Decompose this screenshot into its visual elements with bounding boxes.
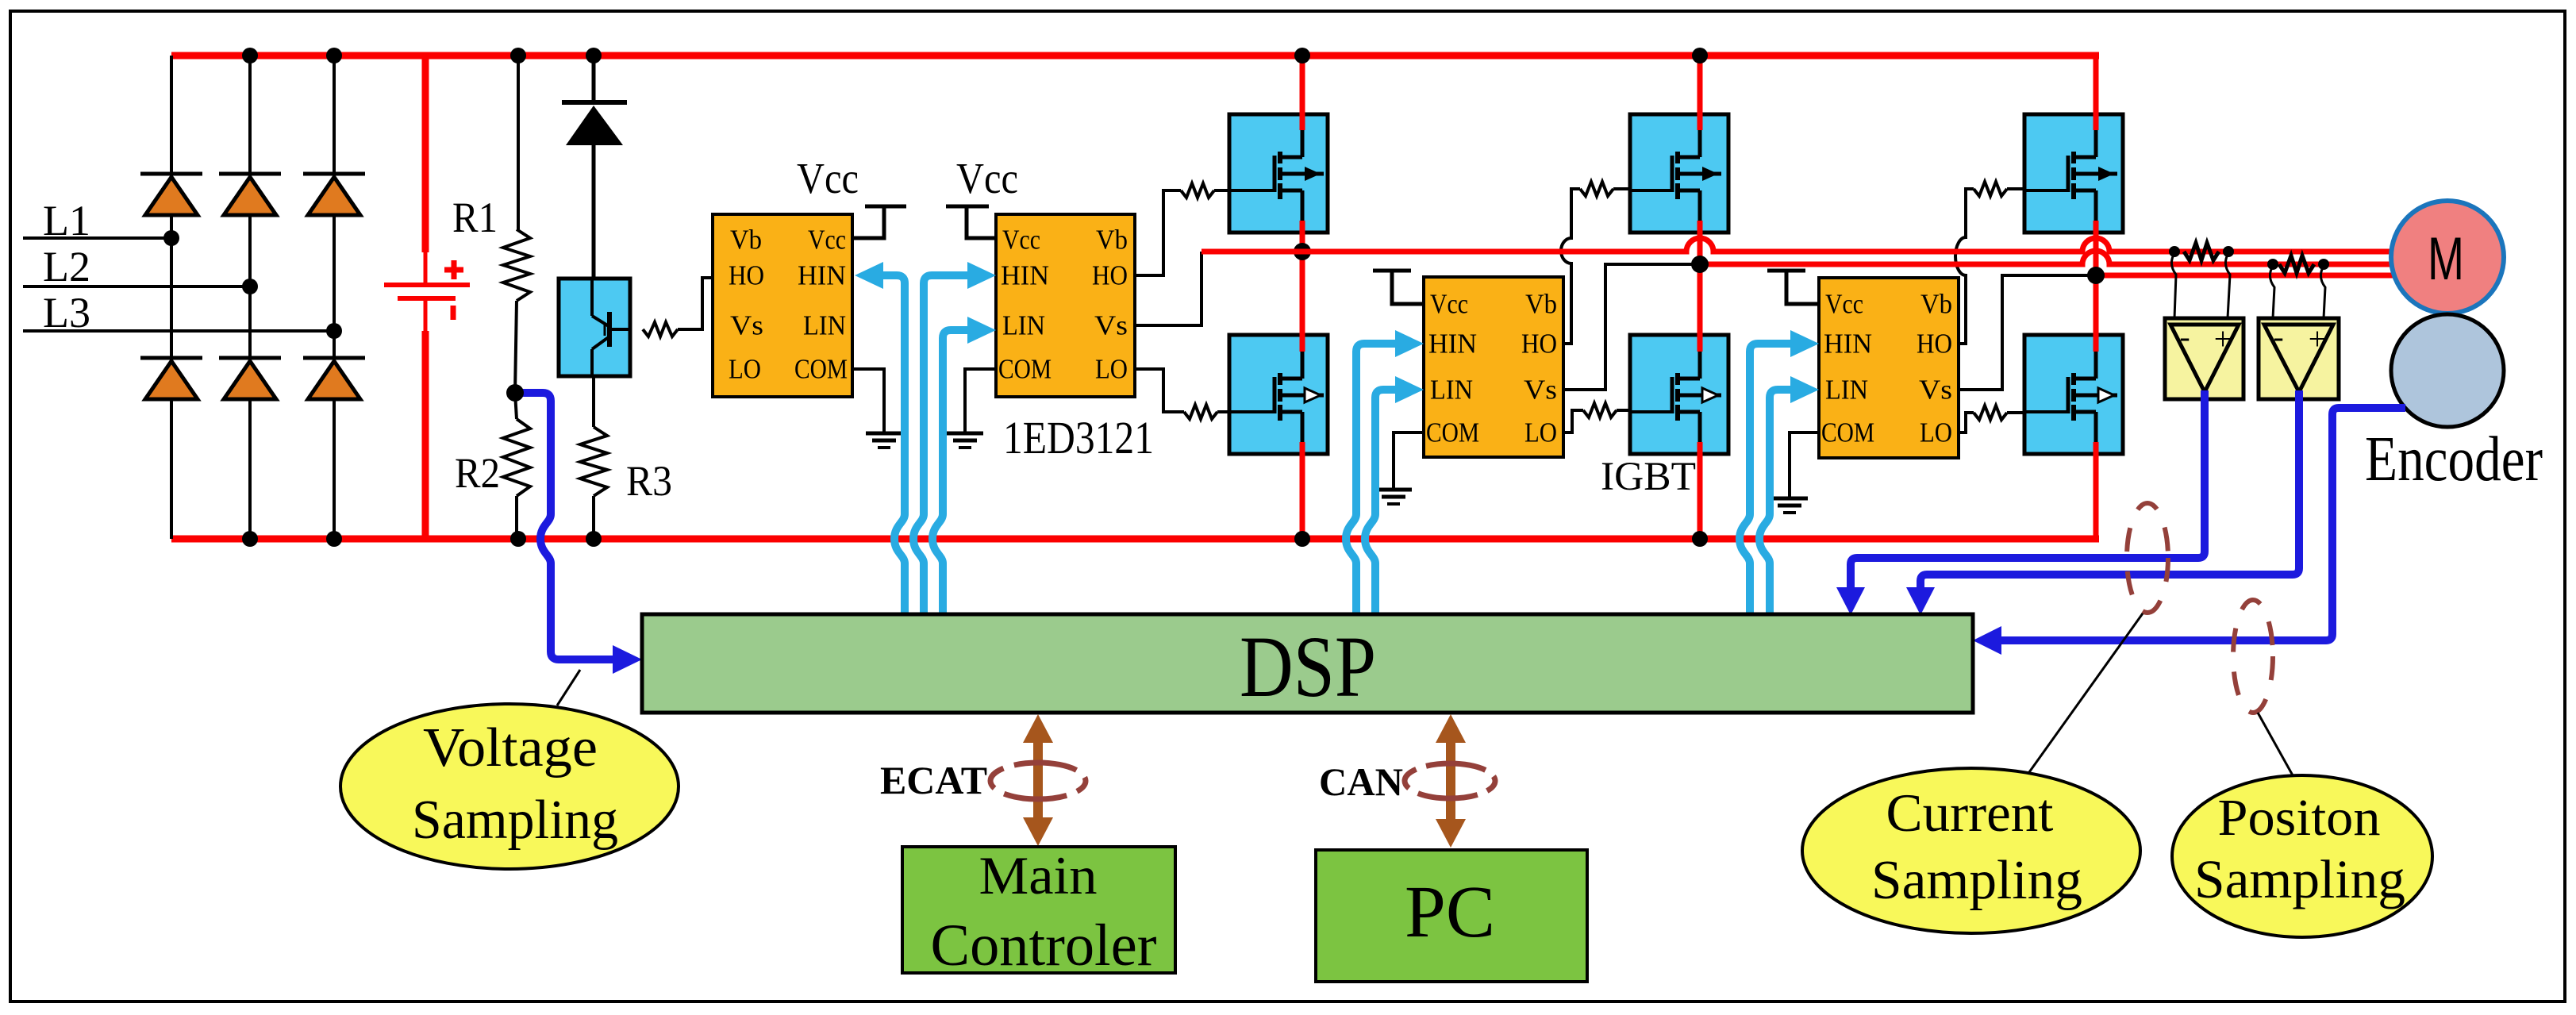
node: shunt1 left xyxy=(2169,246,2180,257)
resistor Rg31 (leg3 top gate) xyxy=(1974,182,2007,196)
transistor Q5 (leg2 bottom IGBT) xyxy=(1628,335,1728,454)
svg-text:Vb: Vb xyxy=(730,225,762,256)
diode D1 (bootstrap, black) xyxy=(562,56,627,279)
node: shunt2 right xyxy=(2318,259,2329,270)
svg-text:L2: L2 xyxy=(43,243,90,290)
callout: Current Sampling xyxy=(1802,768,2140,933)
ground of U4 COM xyxy=(1771,433,1819,513)
arrowhead: voltage sampling into DSP xyxy=(613,645,642,674)
diode D12 (upper, phase 2) xyxy=(219,174,281,215)
arrowhead: current1 into DSP xyxy=(1836,587,1865,615)
svg-text:Sampling: Sampling xyxy=(412,790,618,851)
svg-text:COM: COM xyxy=(1426,417,1479,448)
wire: phase 2 (red, hop at leg3) xyxy=(1700,251,2397,264)
svg-text:LO: LO xyxy=(1524,417,1557,448)
svg-text:Vcc: Vcc xyxy=(1825,289,1863,320)
resistor Rg21 (leg2 top gate) xyxy=(1580,182,1613,196)
diode D11 (upper, phase 1) xyxy=(140,174,202,215)
op-amp / gate driver U2 (right 1ED3121) xyxy=(996,214,1135,397)
svg-text:Vb: Vb xyxy=(1920,289,1952,320)
svg-text:Vs: Vs xyxy=(1094,310,1128,341)
svg-text:HO: HO xyxy=(729,260,764,291)
arrowhead: into U2 LIN xyxy=(967,317,996,344)
wire: rectifier column 3 xyxy=(333,56,336,539)
svg-text:HO: HO xyxy=(1917,329,1952,359)
svg-text:LIN: LIN xyxy=(1825,375,1868,406)
resistor Rg22 (leg2 bottom gate) xyxy=(1583,403,1617,417)
power symbol Vcc of U3 xyxy=(1373,271,1424,304)
wire: leg3 red vertical segments xyxy=(2093,52,2099,542)
svg-text:M: M xyxy=(2428,225,2464,293)
encoder disc xyxy=(2391,314,2504,427)
svg-text:HIN: HIN xyxy=(798,260,846,291)
svg-text:Voltage: Voltage xyxy=(423,717,598,779)
node: shunt1 right xyxy=(2223,246,2234,257)
wire: U2 LO to leg1 bottom gate xyxy=(1135,369,1184,412)
wire: PWM LIN to U3 (cyan, from DSP) xyxy=(1365,390,1397,614)
arrowhead: encoder into DSP xyxy=(1973,626,2001,655)
svg-text:COM: COM xyxy=(998,354,1052,385)
junction dots rectifier xyxy=(163,48,342,547)
callout: Voltage Sampling xyxy=(340,704,679,869)
wire: bottom DC bus (red) xyxy=(171,536,2099,543)
wire: U2 Vs to phase 1 xyxy=(1135,252,1201,325)
wire: Q1 gate to U1 HO xyxy=(678,278,713,329)
wire: gate resistor to IGBT xyxy=(1617,409,1636,412)
arrowhead: into U3 HIN xyxy=(1395,330,1424,357)
svg-text:Sampling: Sampling xyxy=(1871,850,2082,911)
dashed ellipse: CAN isolation xyxy=(1405,763,1495,798)
svg-text:Vs: Vs xyxy=(1919,375,1952,406)
wire: U3 LO to leg2 bottom gate xyxy=(1565,410,1583,433)
ground of U1 COM xyxy=(853,369,902,448)
wire: PWM HIN to U1 (cyan, to DSP) xyxy=(881,275,905,614)
resistor R1 xyxy=(503,56,530,393)
svg-text:R2: R2 xyxy=(455,449,500,497)
wire: voltage sampling (blue) from R1/R2 node to DSP xyxy=(517,393,616,659)
wire: gate resistor to IGBT xyxy=(2007,411,2029,414)
resistor Rg11 (leg1 top gate) xyxy=(1181,183,1214,198)
arrowhead: into U4 HIN xyxy=(1790,330,1819,357)
svg-text:IGBT: IGBT xyxy=(1601,455,1696,499)
svg-text:Positon: Positon xyxy=(2218,789,2381,847)
resistor Rs1 (current shunt, phase 1) xyxy=(2184,243,2219,260)
svg-text:HIN: HIN xyxy=(1824,329,1872,359)
svg-text:-: - xyxy=(2179,319,2190,355)
ground of U3 COM xyxy=(1375,433,1424,504)
svg-text:LIN: LIN xyxy=(1002,310,1045,341)
resistor R2 xyxy=(503,393,530,539)
node: shunt2 left xyxy=(2267,259,2278,270)
wire: gate resistor to IGBT xyxy=(1613,187,1635,190)
op-amp A2 (current sense amp 2) xyxy=(2259,318,2339,399)
wire: PWM LIN to U4 (cyan, from DSP) xyxy=(1759,390,1792,614)
wire: U3 Vs to phase 2 node xyxy=(1565,264,1700,390)
svg-text:LO: LO xyxy=(1920,417,1952,448)
wire: rectifier column 1 xyxy=(170,56,173,539)
svg-text:LIN: LIN xyxy=(1430,375,1473,406)
svg-text:DSP: DSP xyxy=(1240,618,1376,715)
transistor Q7 (leg3 bottom IGBT) xyxy=(2024,335,2123,454)
wire: gate resistor to IGBT xyxy=(2007,187,2029,190)
resistor Rs2 (current shunt, phase 2) xyxy=(2279,256,2314,273)
node: leg2 phase xyxy=(1691,256,1709,273)
op-amp / gate driver U3 (leg2 1ED3121) xyxy=(1424,277,1563,457)
svg-text:COM: COM xyxy=(1821,417,1874,448)
svg-text:LO: LO xyxy=(1095,354,1128,385)
power symbol Vcc of U2 xyxy=(946,206,996,238)
wire: PWM HIN to U4 (cyan, from DSP) xyxy=(1740,344,1792,614)
svg-text:Vb: Vb xyxy=(1096,225,1128,256)
svg-text:L1: L1 xyxy=(43,197,90,244)
pointer: position marker to label xyxy=(2258,713,2293,775)
wire: U2 HO to leg1 top gate xyxy=(1135,190,1181,275)
op-amp A1 (current sense amp 1) xyxy=(2165,318,2243,399)
svg-text:R3: R3 xyxy=(626,457,672,505)
wire: gate resistor to IGBT xyxy=(1217,410,1236,413)
svg-text:Main: Main xyxy=(979,845,1098,905)
callout: Positon Sampling xyxy=(2172,775,2432,937)
wire: PWM LIN to U2 (cyan, to DSP) xyxy=(932,330,970,614)
motor M xyxy=(2391,201,2504,313)
node: leg1 bottom bus xyxy=(1294,531,1310,547)
wire: L1 input line xyxy=(23,236,171,240)
power symbol Vcc of U4 xyxy=(1767,271,1819,304)
wire: encoder feedback (blue) to DSP xyxy=(2000,408,2405,640)
wire: U3 HO up to leg2 top gate (hops phase1) xyxy=(1561,189,1580,344)
svg-text:HIN: HIN xyxy=(1001,260,1049,291)
resistor R3 xyxy=(580,427,607,539)
wire: U4 LO to leg3 bottom gate xyxy=(1959,413,1974,433)
svg-text:Sampling: Sampling xyxy=(2194,849,2405,909)
wire: leg1 red vertical segments xyxy=(1300,56,1305,539)
wire: rectifier column 2 xyxy=(248,56,252,539)
svg-text:Controler: Controler xyxy=(931,913,1157,978)
arrowhead: into U3 LIN xyxy=(1395,376,1424,403)
svg-text:1ED3121: 1ED3121 xyxy=(1003,412,1154,463)
dashed ellipse: ECAT isolation xyxy=(990,763,1086,799)
resistor Rg12 (leg1 bottom gate) xyxy=(1184,405,1217,419)
svg-text:Vcc: Vcc xyxy=(808,225,846,256)
wire: leg2 red vertical segments xyxy=(1697,56,1703,539)
svg-text:Encoder: Encoder xyxy=(2365,425,2543,494)
transistor Q2 (leg1 top IGBT) xyxy=(1229,114,1328,233)
DSP block xyxy=(642,614,1973,715)
svg-text:Vcc: Vcc xyxy=(956,154,1018,202)
wire: U4 HO up to leg3 top gate (hops phase1+2) xyxy=(1955,189,1974,344)
svg-text:L3: L3 xyxy=(43,289,90,336)
transistor Q1 (buffer, cyan box) xyxy=(559,279,630,376)
capacitor C1 (DC link, red) xyxy=(384,52,470,539)
node: R1/R2 divider tap xyxy=(506,384,524,402)
svg-text:Vs: Vs xyxy=(730,310,763,341)
svg-text:Vcc: Vcc xyxy=(1002,225,1040,256)
transistor Q3 (leg1 bottom IGBT) xyxy=(1229,335,1328,454)
wire: U4 Vs to phase 3 node xyxy=(1959,275,2096,390)
wire: current sample 1 (blue) to DSP xyxy=(1851,390,2205,590)
node: leg1 top bus xyxy=(1294,48,1310,63)
pointer: voltage arrow to label xyxy=(557,670,580,706)
svg-text:PC: PC xyxy=(1405,871,1495,953)
wire: PWM HIN to U3 (cyan, from DSP) xyxy=(1346,344,1397,614)
op-amp / gate driver U1 (left 1ED3121, mirrored) xyxy=(713,214,852,397)
wire: shunt2 sense leads xyxy=(2270,266,2274,318)
svg-text:Vs: Vs xyxy=(1524,375,1557,406)
transistor Q6 (leg3 top IGBT) xyxy=(2024,114,2123,233)
svg-text:-: - xyxy=(2273,319,2283,355)
svg-text:LIN: LIN xyxy=(803,310,846,341)
node: leg1 phase xyxy=(1294,243,1311,260)
wire: PWM HIN to U2 (cyan, to DSP) xyxy=(913,275,970,614)
wire: phase 3 (red) xyxy=(2096,273,2397,279)
wire: current sample 2 (blue) to DSP xyxy=(1920,390,2299,590)
wire: phase 1 (red, with hops at leg2/leg3) xyxy=(1201,238,2397,252)
dashed ellipse: position sampling marker xyxy=(2233,600,2273,713)
wire: gate resistor to IGBT xyxy=(1214,189,1235,192)
node: leg2 top bus xyxy=(1692,48,1708,63)
wire: shunt1 sense leads xyxy=(2171,253,2176,318)
node: leg3 phase xyxy=(2087,267,2105,284)
wire: top DC bus (red) xyxy=(171,52,2099,60)
arrowhead: into U1 HIN xyxy=(855,262,883,289)
power symbol Vcc of U1 xyxy=(853,206,906,238)
wire: L2 input line xyxy=(23,285,250,288)
wire: Q1 emitter to R3 xyxy=(592,376,595,427)
CAN link arrow (brown, double-headed) xyxy=(1436,714,1466,848)
arrowhead: into U2 HIN xyxy=(967,262,996,289)
node: leg2 bottom bus xyxy=(1692,531,1708,547)
ECAT link arrow (brown, double-headed) xyxy=(1023,714,1053,846)
svg-text:CAN: CAN xyxy=(1319,759,1403,804)
svg-text:HIN: HIN xyxy=(1428,329,1477,359)
resistor Rg32 (leg3 bottom gate) xyxy=(1974,406,2007,420)
ground of U2 COM xyxy=(947,369,996,448)
svg-text:HO: HO xyxy=(1521,329,1557,359)
svg-text:COM: COM xyxy=(794,354,848,385)
svg-text:Current: Current xyxy=(1886,782,2054,843)
diode D16 (lower, phase 3) xyxy=(303,358,365,399)
resistor Rg (gate of Q1) xyxy=(643,322,678,336)
PC block xyxy=(1316,850,1587,982)
diode D15 (lower, phase 2) xyxy=(219,358,281,399)
svg-text:R1: R1 xyxy=(452,194,498,241)
junction dots DC bus mid xyxy=(510,48,602,547)
pointer: current marker to label xyxy=(2025,613,2143,778)
svg-text:HO: HO xyxy=(1092,260,1128,291)
svg-text:+: + xyxy=(2214,321,2232,357)
svg-text:Vcc: Vcc xyxy=(1430,289,1468,320)
op-amp / gate driver U4 (leg3 1ED3121) xyxy=(1819,278,1959,458)
svg-text:LO: LO xyxy=(729,354,761,385)
svg-text:ECAT: ECAT xyxy=(880,758,987,802)
arrowhead: current2 into DSP xyxy=(1906,587,1935,615)
dashed ellipse: current sampling marker xyxy=(2127,503,2168,613)
svg-text:+: + xyxy=(2309,321,2327,357)
arrowhead: into U4 LIN xyxy=(1790,376,1819,403)
transistor Q4 (leg2 top IGBT) xyxy=(1628,114,1728,233)
diode D13 (upper, phase 3) xyxy=(303,174,365,215)
Main Controler block xyxy=(902,845,1175,978)
diode D14 (lower, phase 1) xyxy=(140,358,202,399)
svg-text:Vb: Vb xyxy=(1525,289,1557,320)
wire: L3 input line xyxy=(23,329,334,333)
svg-text:Vcc: Vcc xyxy=(797,154,859,202)
